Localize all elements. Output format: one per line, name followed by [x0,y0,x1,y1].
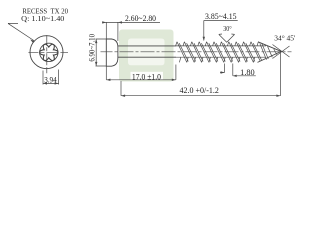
svg-text:3.85~4.15: 3.85~4.15 [205,12,237,21]
svg-text:30°: 30° [223,24,231,33]
svg-text:17.0 ±1.0: 17.0 ±1.0 [132,72,161,81]
svg-text:42.0 +0/-1.2: 42.0 +0/-1.2 [180,86,219,95]
svg-text:1.80: 1.80 [240,68,255,77]
svg-text:Q: 1.10~1.40: Q: 1.10~1.40 [21,15,65,23]
svg-text:6.90~7.10: 6.90~7.10 [88,34,97,62]
svg-text:3.94: 3.94 [44,75,57,84]
svg-text:2.60~2.80: 2.60~2.80 [125,14,156,23]
svg-text:34° 45': 34° 45' [274,33,296,42]
